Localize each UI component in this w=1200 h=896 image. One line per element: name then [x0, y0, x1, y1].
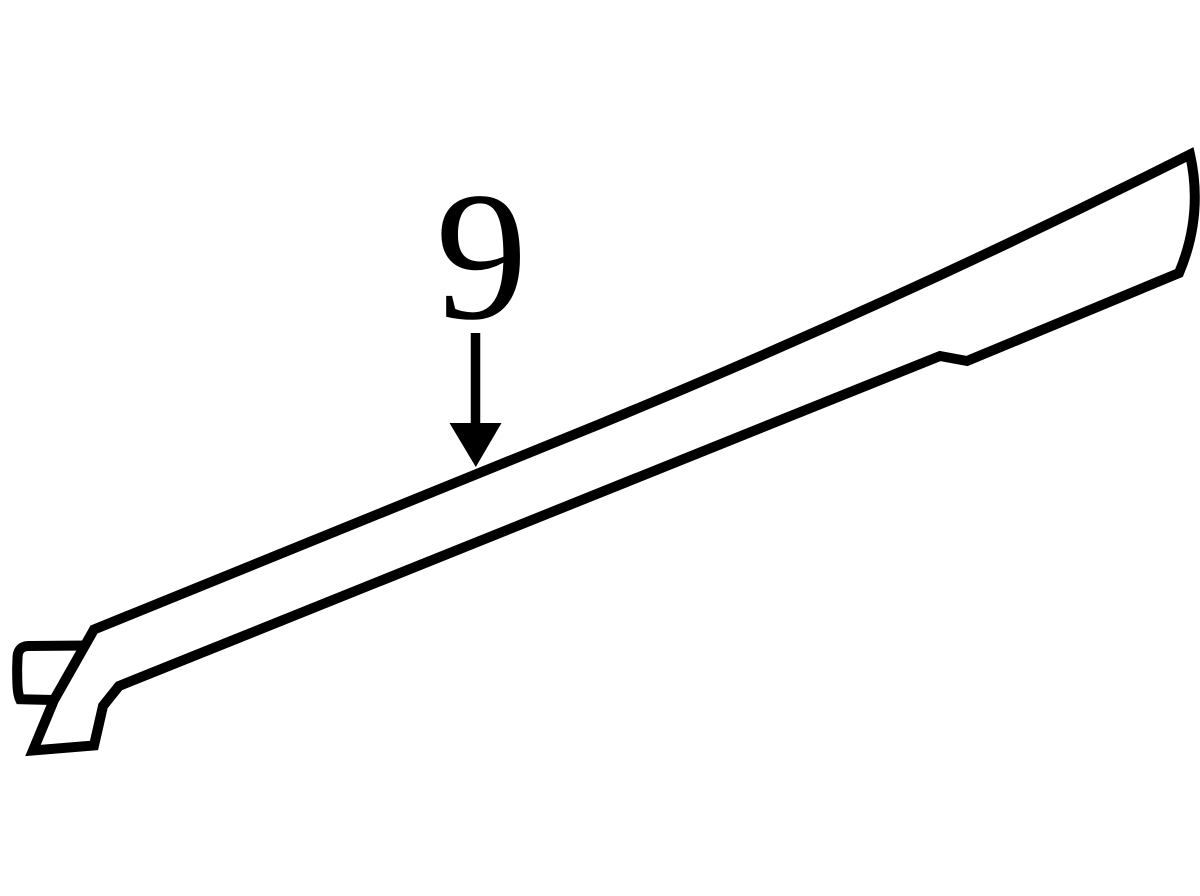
svg-text:9: 9 — [436, 154, 528, 358]
leader arrow shaft — [471, 333, 481, 432]
mounting tab (end clip) — [17, 646, 88, 701]
leader arrowhead — [450, 423, 502, 467]
molding body outline — [33, 155, 1195, 751]
